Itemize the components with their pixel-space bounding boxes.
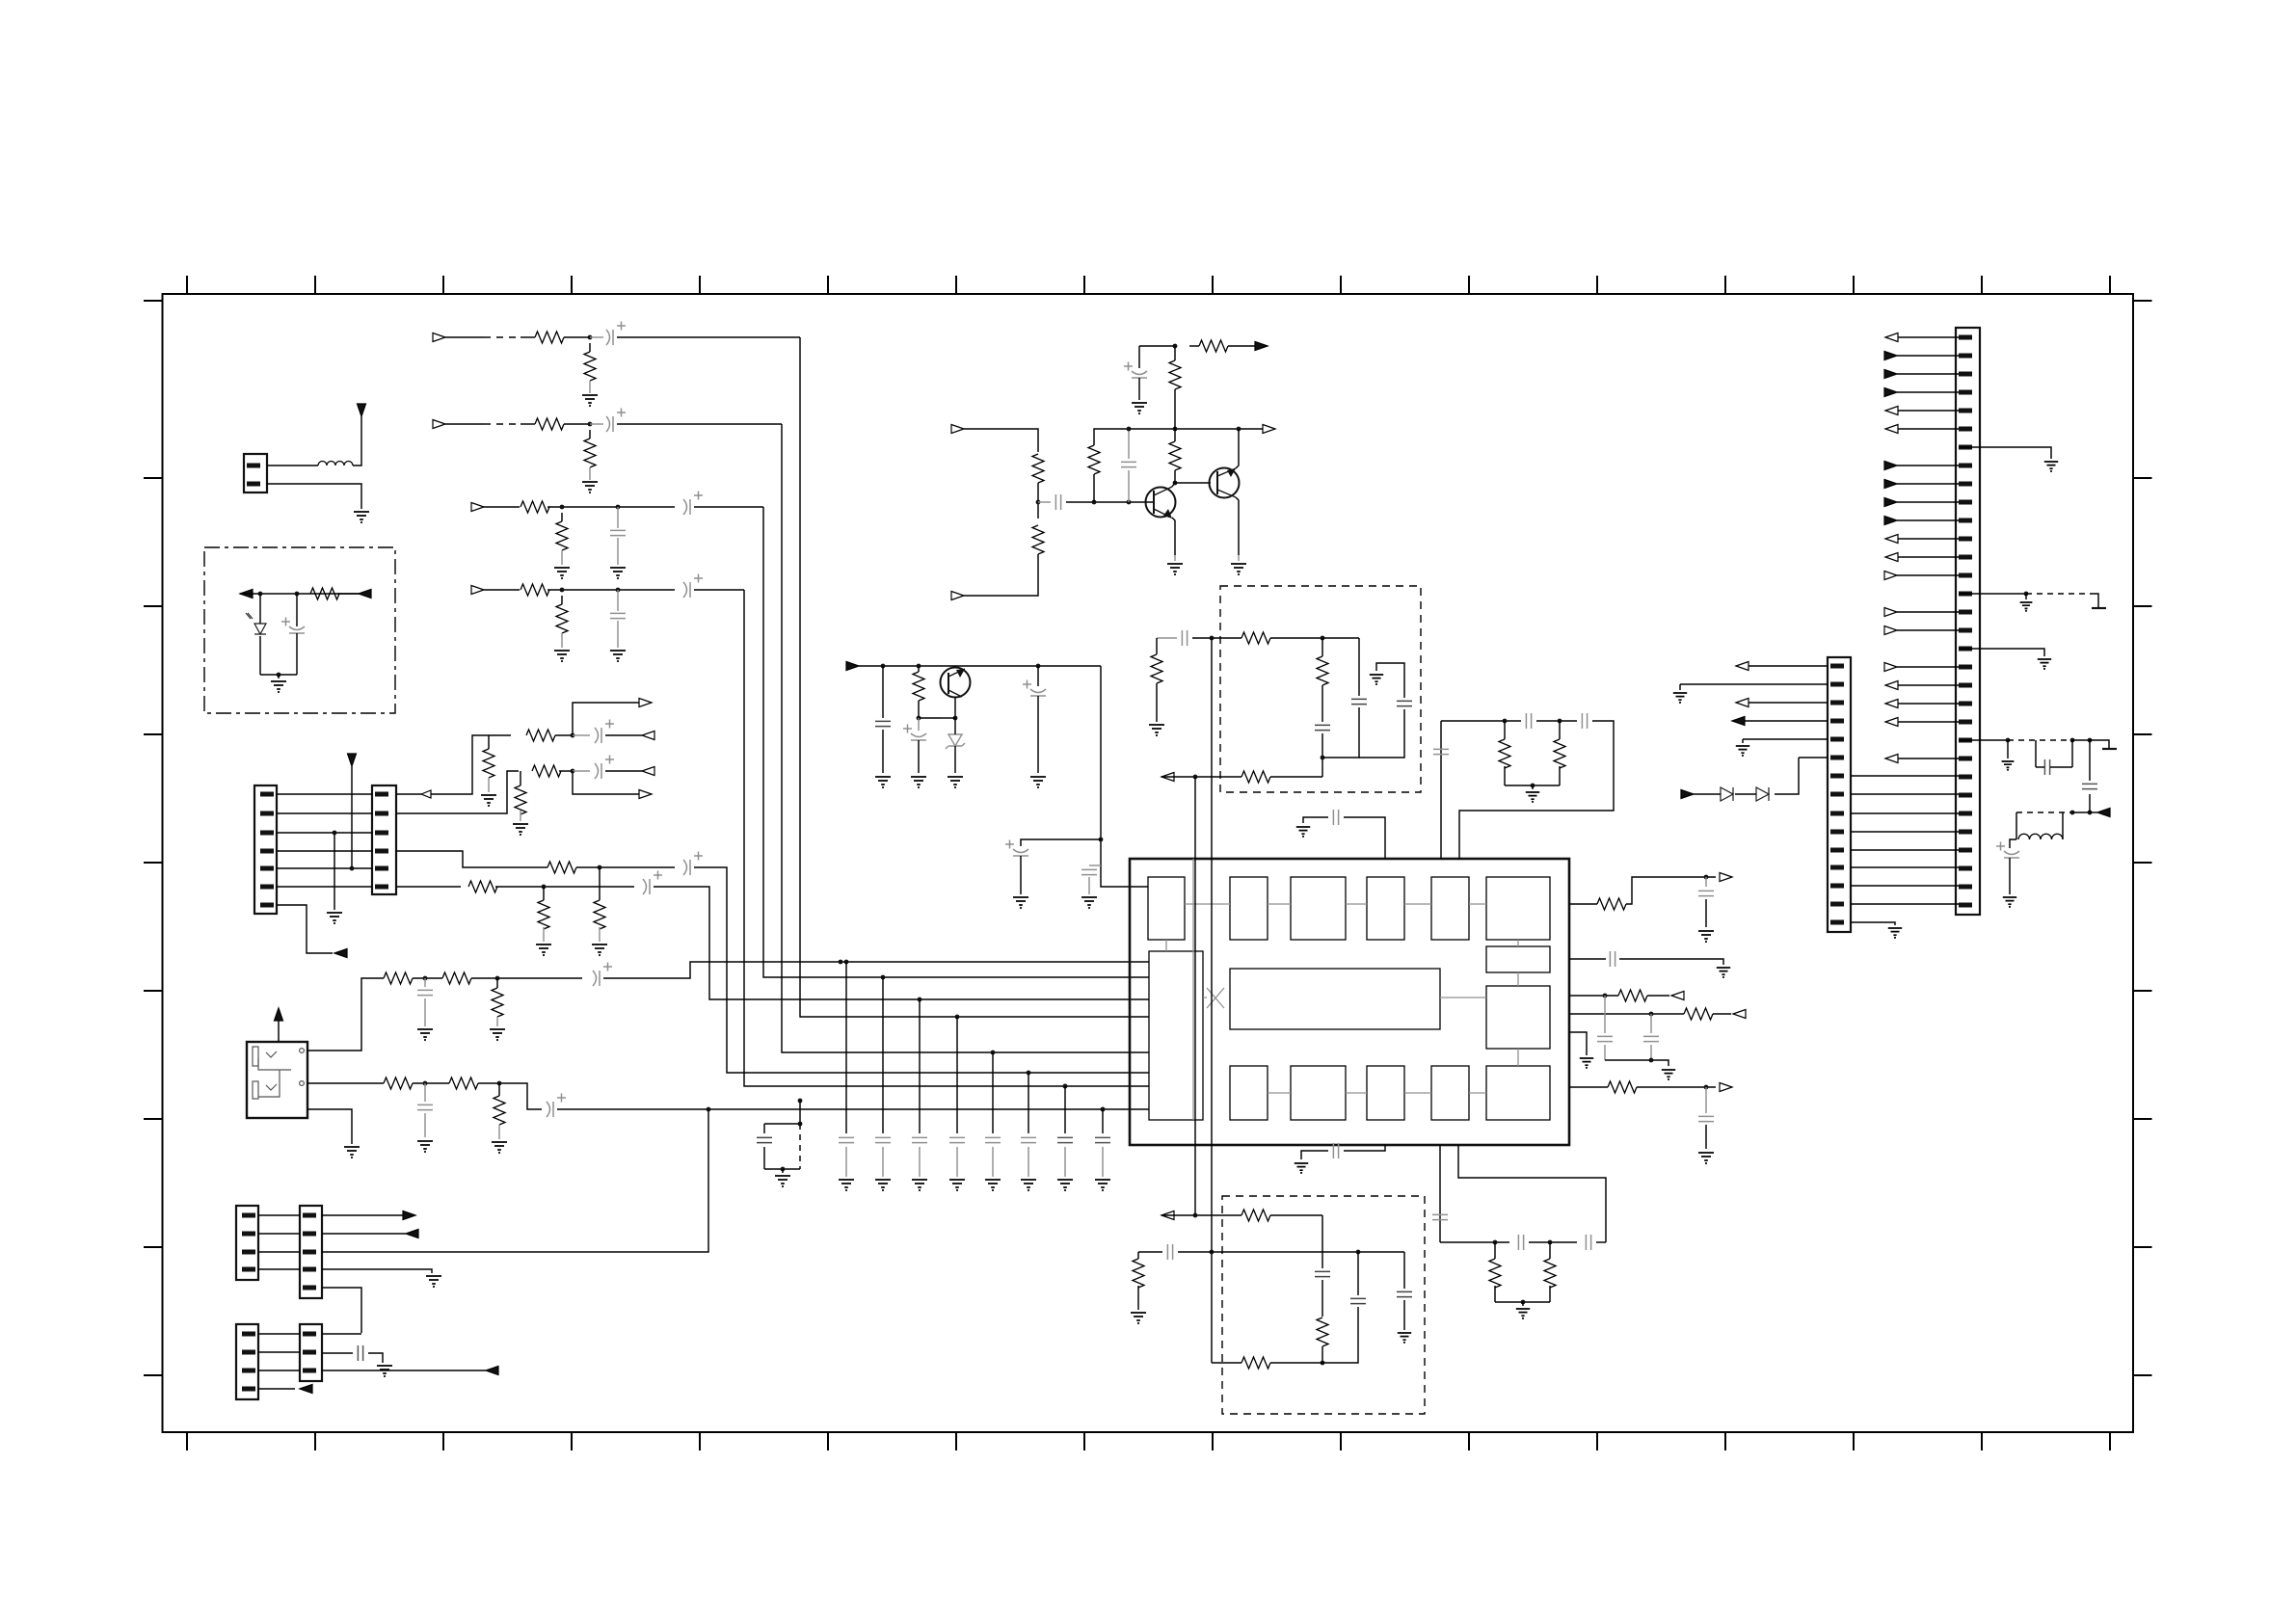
wire: [1559, 721, 1561, 739]
wire: [471, 977, 582, 979]
diode D104: [1721, 787, 1733, 801]
ground G116: [592, 945, 607, 956]
arrow VCO out 2: [1161, 1211, 1174, 1220]
wire: [424, 978, 426, 987]
ground G130: [1516, 1309, 1530, 1319]
wire rail to C103: [1128, 429, 1130, 459]
polarized capacitor CP111: [547, 1094, 566, 1118]
capacitor C110: [1182, 630, 1187, 646]
arrow out6: [1720, 1083, 1732, 1092]
ground G127: [1296, 827, 1310, 838]
wire CN103 pin2: [396, 771, 519, 813]
wire Q102 emitter to rail: [1236, 429, 1239, 468]
junction node B: [295, 592, 300, 597]
junction N5: [560, 588, 565, 593]
arrow CN109 pin 10: [1884, 498, 1897, 507]
wire: [561, 513, 563, 521]
wire CN109 pin 21: [1897, 703, 1959, 705]
capacitor C122: [1315, 1271, 1330, 1276]
capacitor C127: [1610, 951, 1615, 967]
wire collector rail: [1118, 428, 1268, 430]
ground G118: [490, 1029, 505, 1041]
junction N28: [423, 1081, 428, 1086]
wire in1: [964, 429, 1038, 452]
wire bottom: [1495, 1301, 1550, 1303]
capacitor C128: [1597, 1036, 1613, 1041]
wire: [1650, 1014, 1652, 1033]
internal interconnects: [1166, 859, 1518, 1120]
junction N9: [1127, 500, 1132, 505]
junction N46: [1321, 1361, 1325, 1366]
ground G119: [417, 1141, 433, 1153]
wire to Q103 collector node: [919, 717, 941, 719]
junction N53: [1704, 1085, 1709, 1090]
wire: [1156, 683, 1158, 722]
wire: [1303, 817, 1328, 823]
wire Q103 collector down: [954, 697, 956, 718]
junction N54: [2024, 592, 2029, 597]
wire: [589, 343, 591, 352]
wire: [1228, 345, 1255, 347]
wire CN109 pin 20: [1897, 684, 1959, 686]
junction bank 2: [881, 975, 886, 980]
wire: [2036, 766, 2044, 768]
connector CN105: [300, 1206, 322, 1298]
block top row 4: [1431, 877, 1469, 940]
capacitor C121: [1586, 1235, 1590, 1250]
wire CN106-CN107 y1403: [258, 1351, 300, 1353]
ground G142: [2003, 897, 2016, 908]
capacitor C102: [1055, 494, 1060, 510]
connector CN106: [236, 1324, 258, 1399]
wire: [1088, 877, 1090, 894]
wire: [1301, 1151, 1328, 1159]
wire CP103 down: [918, 740, 920, 773]
wire to Q102 base: [1175, 482, 1211, 484]
resistor R125: [1317, 656, 1328, 685]
wire: [1102, 1147, 1104, 1177]
polarized capacitor CP101: [281, 618, 305, 634]
resistor R105: [1169, 441, 1181, 470]
resistor R4: [584, 439, 596, 467]
arrow CN109 pin 11: [1884, 517, 1897, 525]
arrow diode feed: [1681, 790, 1694, 799]
wire: [2071, 740, 2073, 767]
wire: [368, 1353, 383, 1363]
block bottom row 2: [1291, 1066, 1346, 1120]
wire row: [1161, 1214, 1241, 1216]
arrow net left: [240, 590, 253, 599]
wire loop: [1458, 1145, 1606, 1242]
resistor R103: [1032, 525, 1044, 554]
connector CN101: [244, 454, 267, 492]
wire to C104: [882, 666, 884, 718]
polarized capacitor CP105: [1005, 840, 1028, 857]
wire dashed: [2026, 593, 2092, 595]
ground G125: [1149, 725, 1164, 736]
wire dashed side: [799, 1124, 801, 1169]
capacitor C2: [610, 613, 626, 618]
junction feed pin5: [350, 866, 355, 871]
wire: [413, 1082, 449, 1084]
junction N44: [1521, 1300, 1526, 1305]
wire box bottom: [764, 1168, 800, 1170]
junction N6: [616, 588, 621, 593]
ground G138: [2044, 462, 2058, 472]
wire to resistor: [521, 336, 535, 338]
wire: [1647, 995, 1669, 997]
transistor Q102: [1210, 468, 1240, 498]
wire: [1064, 1147, 1066, 1177]
wire to CP104: [1037, 666, 1039, 686]
junction N24: [598, 865, 602, 870]
LED D101: [246, 613, 266, 634]
wire: [1705, 1125, 1707, 1149]
wire out6: [1569, 1086, 1608, 1088]
wire: [2090, 740, 2109, 748]
capacitor C126: [1698, 891, 1714, 895]
wire CN109 pin 6: [1897, 428, 1959, 430]
wire CN109 pin 9: [1897, 483, 1959, 485]
polarized capacitor CP110: [593, 963, 612, 987]
wire: [1174, 346, 1176, 360]
wire: [1596, 1241, 1606, 1243]
wire branch: [1322, 1215, 1323, 1268]
wire L101 to antenna node: [353, 416, 361, 466]
junction N52: [1649, 1058, 1654, 1063]
wire dashed: [2008, 739, 2072, 741]
wire: [413, 977, 442, 979]
wire CN104-CN105 y1299: [258, 1251, 300, 1253]
arrow supply down: [348, 754, 357, 766]
wire CN102-CN103 pin y844: [277, 812, 372, 814]
wire CN104-CN105 y1317: [258, 1268, 300, 1270]
capacitor C125: [1167, 1244, 1172, 1260]
junction N22: [571, 733, 575, 738]
resistor R104: [1088, 445, 1100, 474]
ground G124: [377, 1366, 392, 1377]
junction N31: [707, 1107, 711, 1112]
capacitor C116: [1526, 713, 1531, 729]
junction N32: [1063, 1084, 1068, 1089]
connector CN103: [372, 785, 396, 894]
block top row 5: [1486, 877, 1550, 940]
wire bus line 5: [694, 867, 1149, 1073]
wire: [1705, 1087, 1707, 1113]
resistor R123: [1151, 654, 1162, 683]
resistor R108: [913, 672, 924, 701]
block bottom row 1: [1230, 1066, 1268, 1120]
wire: [992, 1147, 994, 1177]
junction N14: [1173, 344, 1178, 349]
junction N4: [616, 505, 621, 510]
wire loop to IC: [1459, 721, 1614, 859]
wire bottom row: [1212, 1362, 1241, 1364]
wire CN109 pin 14: [1897, 574, 1959, 576]
wire CN104-CN105 y1280: [258, 1233, 300, 1235]
wire row bottom: [1161, 776, 1241, 778]
arrow VCO out: [1161, 773, 1174, 782]
wire to cap: [590, 423, 603, 425]
junction N7: [1036, 500, 1041, 505]
wire branch down: [573, 771, 644, 794]
wire CN108 pin2: [1680, 683, 1828, 685]
wire to node: [564, 423, 590, 425]
wire to in2: [964, 554, 1038, 596]
wire vertical feed: [351, 766, 353, 868]
ground G143: [1673, 693, 1687, 704]
junction N45: [1193, 1213, 1198, 1218]
wire dashed row: [2016, 811, 2072, 813]
wire bank 3: [919, 999, 921, 1133]
wire: [1174, 555, 1176, 561]
junction N34: [781, 1167, 786, 1172]
capacitor C8: [1021, 1137, 1036, 1142]
wire: [1522, 1302, 1524, 1306]
wire: [599, 867, 601, 900]
ground G129: [1526, 792, 1539, 803]
capacitor C119: [1432, 1214, 1448, 1219]
wire chain B to IC: [557, 1108, 1149, 1110]
wire: [1742, 739, 1744, 743]
wire to resistor: [521, 423, 535, 425]
resistor R6: [556, 521, 568, 550]
wire: [2092, 594, 2098, 607]
junction N25: [542, 885, 547, 890]
wire bias row: [1139, 345, 1175, 347]
resistor R129: [1489, 1259, 1501, 1288]
wire: [763, 1124, 765, 1133]
wire: [555, 734, 573, 736]
junction N21: [333, 831, 337, 836]
block input selector: [1149, 951, 1203, 1120]
dashed box upper filter: [1220, 586, 1421, 792]
wire C103 to base: [1128, 470, 1130, 502]
wire: [1559, 766, 1561, 785]
ground G144: [1736, 746, 1749, 757]
junction N12: [1237, 427, 1241, 432]
ground G105: [1132, 403, 1147, 414]
capacitor C104: [875, 721, 891, 726]
wire: [561, 633, 563, 648]
wire to C coupling: [1038, 501, 1051, 503]
capacitor C108: [757, 1137, 772, 1142]
junction N23: [571, 769, 575, 774]
polarized capacitor CP112: [1996, 842, 2019, 859]
headphone jack J101: [247, 1042, 307, 1118]
wire out3: [1569, 995, 1618, 997]
capacitor C103: [1121, 462, 1136, 466]
wire: [1174, 429, 1176, 441]
wire to IC top: [1344, 817, 1385, 859]
polarized capacitor CP1: [606, 322, 626, 346]
wire branch 2: [1358, 638, 1360, 696]
wire: [1270, 776, 1322, 778]
wire: [559, 770, 573, 772]
wire: [617, 507, 619, 528]
resistor R116: [594, 900, 605, 929]
wire: [1713, 1013, 1731, 1015]
junction N36: [1321, 636, 1325, 641]
wire: [1403, 1300, 1405, 1330]
wire dashed section: [484, 423, 521, 425]
wire CN109 pin 2: [1897, 355, 1959, 357]
wire CN109 pin 17: [1897, 629, 1959, 631]
resistor R102: [1032, 454, 1044, 483]
arrow CN109 pin 19: [1884, 663, 1897, 672]
wire: [918, 666, 920, 672]
wire bus line 1: [800, 337, 1149, 1017]
border tick marks left: [144, 301, 163, 1375]
wire CN109 pin 24: [1897, 758, 1959, 759]
ground G121: [344, 1147, 360, 1158]
wire: [1705, 899, 1707, 927]
wire: [1775, 758, 1799, 794]
wire: [1037, 483, 1039, 519]
wire branch 3 down: [1359, 709, 1404, 758]
ground G102: [271, 681, 286, 693]
wire: [2010, 839, 2016, 848]
wire: [2072, 739, 2090, 741]
arrow CN108 pin1: [1736, 662, 1749, 671]
ground G139: [2020, 602, 2033, 612]
wire left leg to IC: [1440, 721, 1442, 859]
wire bus line 3: [763, 507, 1149, 977]
wire to IC bottom: [1344, 1145, 1385, 1151]
wire: [2050, 766, 2072, 768]
arrow chevron: [421, 790, 431, 798]
border tick marks top: [187, 276, 2110, 294]
ground G111: [1081, 897, 1097, 909]
wire: [424, 1113, 426, 1137]
wire CN109 pin gnd 1: [1959, 447, 2051, 459]
ground G128: [1295, 1163, 1308, 1174]
wire CN108-CN109 y900: [1851, 866, 1959, 868]
junction N38: [1193, 775, 1198, 780]
wire CP105 down: [1020, 856, 1022, 894]
wire: [1650, 1045, 1652, 1060]
capacitor C123: [1350, 1298, 1366, 1303]
wire pin3 long net: [322, 1109, 708, 1252]
wire: [1549, 1286, 1551, 1302]
wire: [1238, 555, 1240, 561]
wire xtal row: [1441, 720, 1521, 722]
ground G8: [875, 1180, 891, 1191]
wire: [1536, 720, 1577, 722]
arrow out 2: [639, 790, 652, 799]
wire CN109 pin 12: [1897, 538, 1959, 540]
wire: [1189, 345, 1199, 347]
wire CN109 pin 1: [1897, 336, 1959, 338]
arrow pin3: [486, 1367, 498, 1375]
wire CN108-CN109 y824: [1851, 793, 1959, 795]
wire stub: [1089, 865, 1101, 866]
wire: [424, 1083, 426, 1102]
wire CN109 pin 10: [1897, 501, 1959, 503]
junction bank 6: [1027, 1071, 1031, 1076]
wire row: [547, 506, 675, 508]
resistor R109: [526, 730, 555, 741]
ground G115: [536, 945, 551, 956]
wire row top left: [1157, 637, 1177, 639]
wire: [1494, 1242, 1496, 1259]
wire CN106-CN107 y1384: [258, 1333, 300, 1335]
resistor R2: [584, 352, 596, 381]
wire: [1322, 733, 1323, 777]
wire bank 8: [1102, 1109, 1104, 1133]
arrow CN109 pin 2: [1884, 352, 1897, 360]
ground G131: [1398, 1333, 1411, 1344]
capacitor C5: [912, 1137, 927, 1142]
wire CN109 pin 19: [1897, 666, 1959, 668]
junction N56: [2070, 738, 2075, 743]
junction N57: [2088, 738, 2093, 743]
block DSP core: [1230, 969, 1440, 1029]
wire CN109 pin nc: [1959, 593, 2026, 595]
block sub TL: [1148, 877, 1185, 940]
ground G114: [513, 824, 528, 836]
wire bank 2: [882, 977, 884, 1133]
wire: [845, 1147, 847, 1177]
wire to node: [564, 336, 590, 338]
wire to dashed cap box: [799, 1101, 801, 1124]
wire Q102 collector: [1236, 497, 1239, 555]
junction bank 7: [1063, 1084, 1068, 1089]
wire: [1745, 720, 1828, 722]
wire branch up: [573, 703, 644, 735]
arrow CN109 pin 9: [1884, 480, 1897, 489]
ground G132: [1131, 1313, 1146, 1324]
capacitor C107: [417, 1104, 433, 1109]
junction N42: [1493, 1240, 1498, 1245]
ground G108: [948, 777, 963, 788]
wire: [1604, 1045, 1606, 1060]
arrow input row 3: [471, 503, 484, 512]
ground G14: [1095, 1180, 1110, 1191]
wire: [1532, 785, 1534, 789]
wire: [2007, 740, 2009, 758]
junction N39: [1503, 719, 1508, 724]
arrow supply input: [846, 662, 859, 671]
wire: [882, 1147, 884, 1177]
arrow filter out: [2097, 809, 2110, 817]
capacitor C129: [1643, 1036, 1659, 1041]
resistor R120: [384, 1078, 413, 1089]
wire CN108-CN109 y919: [1851, 885, 1959, 887]
wire: [1322, 638, 1323, 656]
dash-dot box remote sensor: [204, 547, 395, 713]
wire: [1494, 1286, 1496, 1302]
wire CN101 pin1 to L101: [267, 465, 318, 466]
wire CN102-CN103 pin y824: [277, 793, 372, 795]
wire bank 1: [845, 962, 847, 1133]
capacitor C114: [1333, 810, 1338, 825]
resistor R121: [449, 1078, 478, 1089]
capacitor C7: [985, 1137, 1001, 1142]
wire: [498, 1083, 500, 1096]
arrow input row 1: [433, 333, 445, 342]
resistor R130: [1544, 1259, 1556, 1288]
wire to ground: [589, 467, 591, 480]
wire row top: [1192, 637, 1241, 639]
junction N50: [1603, 994, 1608, 998]
wire CN103 pin4: [396, 851, 547, 867]
wire: [561, 596, 563, 604]
wire: [1679, 684, 1681, 690]
wire bus line 4: [744, 590, 1149, 1086]
wire CN102-CN103 pin y920: [277, 886, 372, 888]
arrow out4: [1733, 1010, 1746, 1019]
